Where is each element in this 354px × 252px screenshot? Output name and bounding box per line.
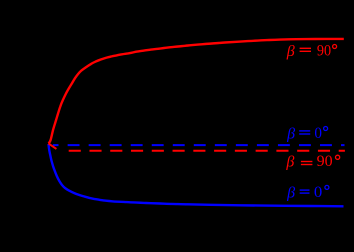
svg-text:β: β bbox=[286, 43, 295, 60]
label beta=90 top red bbox=[286, 43, 337, 61]
svg-text:90: 90 bbox=[317, 153, 333, 170]
label beta=0 bottom blue bbox=[286, 184, 329, 202]
red dashed first slanted dash bbox=[48, 143, 56, 149]
svg-text:β: β bbox=[286, 125, 295, 142]
blue solid curve beta=0 bbox=[49, 144, 344, 206]
svg-text:β: β bbox=[286, 184, 295, 201]
red solid curve beta=90 bbox=[49, 39, 344, 144]
label beta=90 middle red bbox=[285, 153, 339, 171]
svg-text:90: 90 bbox=[317, 43, 331, 60]
svg-text:0: 0 bbox=[314, 125, 322, 142]
blue dashed line beta=0 bbox=[53, 144, 345, 146]
red dashed line beta=90 bbox=[69, 150, 345, 152]
label beta=0 middle blue bbox=[286, 125, 327, 143]
svg-text:0: 0 bbox=[314, 184, 322, 201]
svg-text:β: β bbox=[285, 154, 294, 171]
